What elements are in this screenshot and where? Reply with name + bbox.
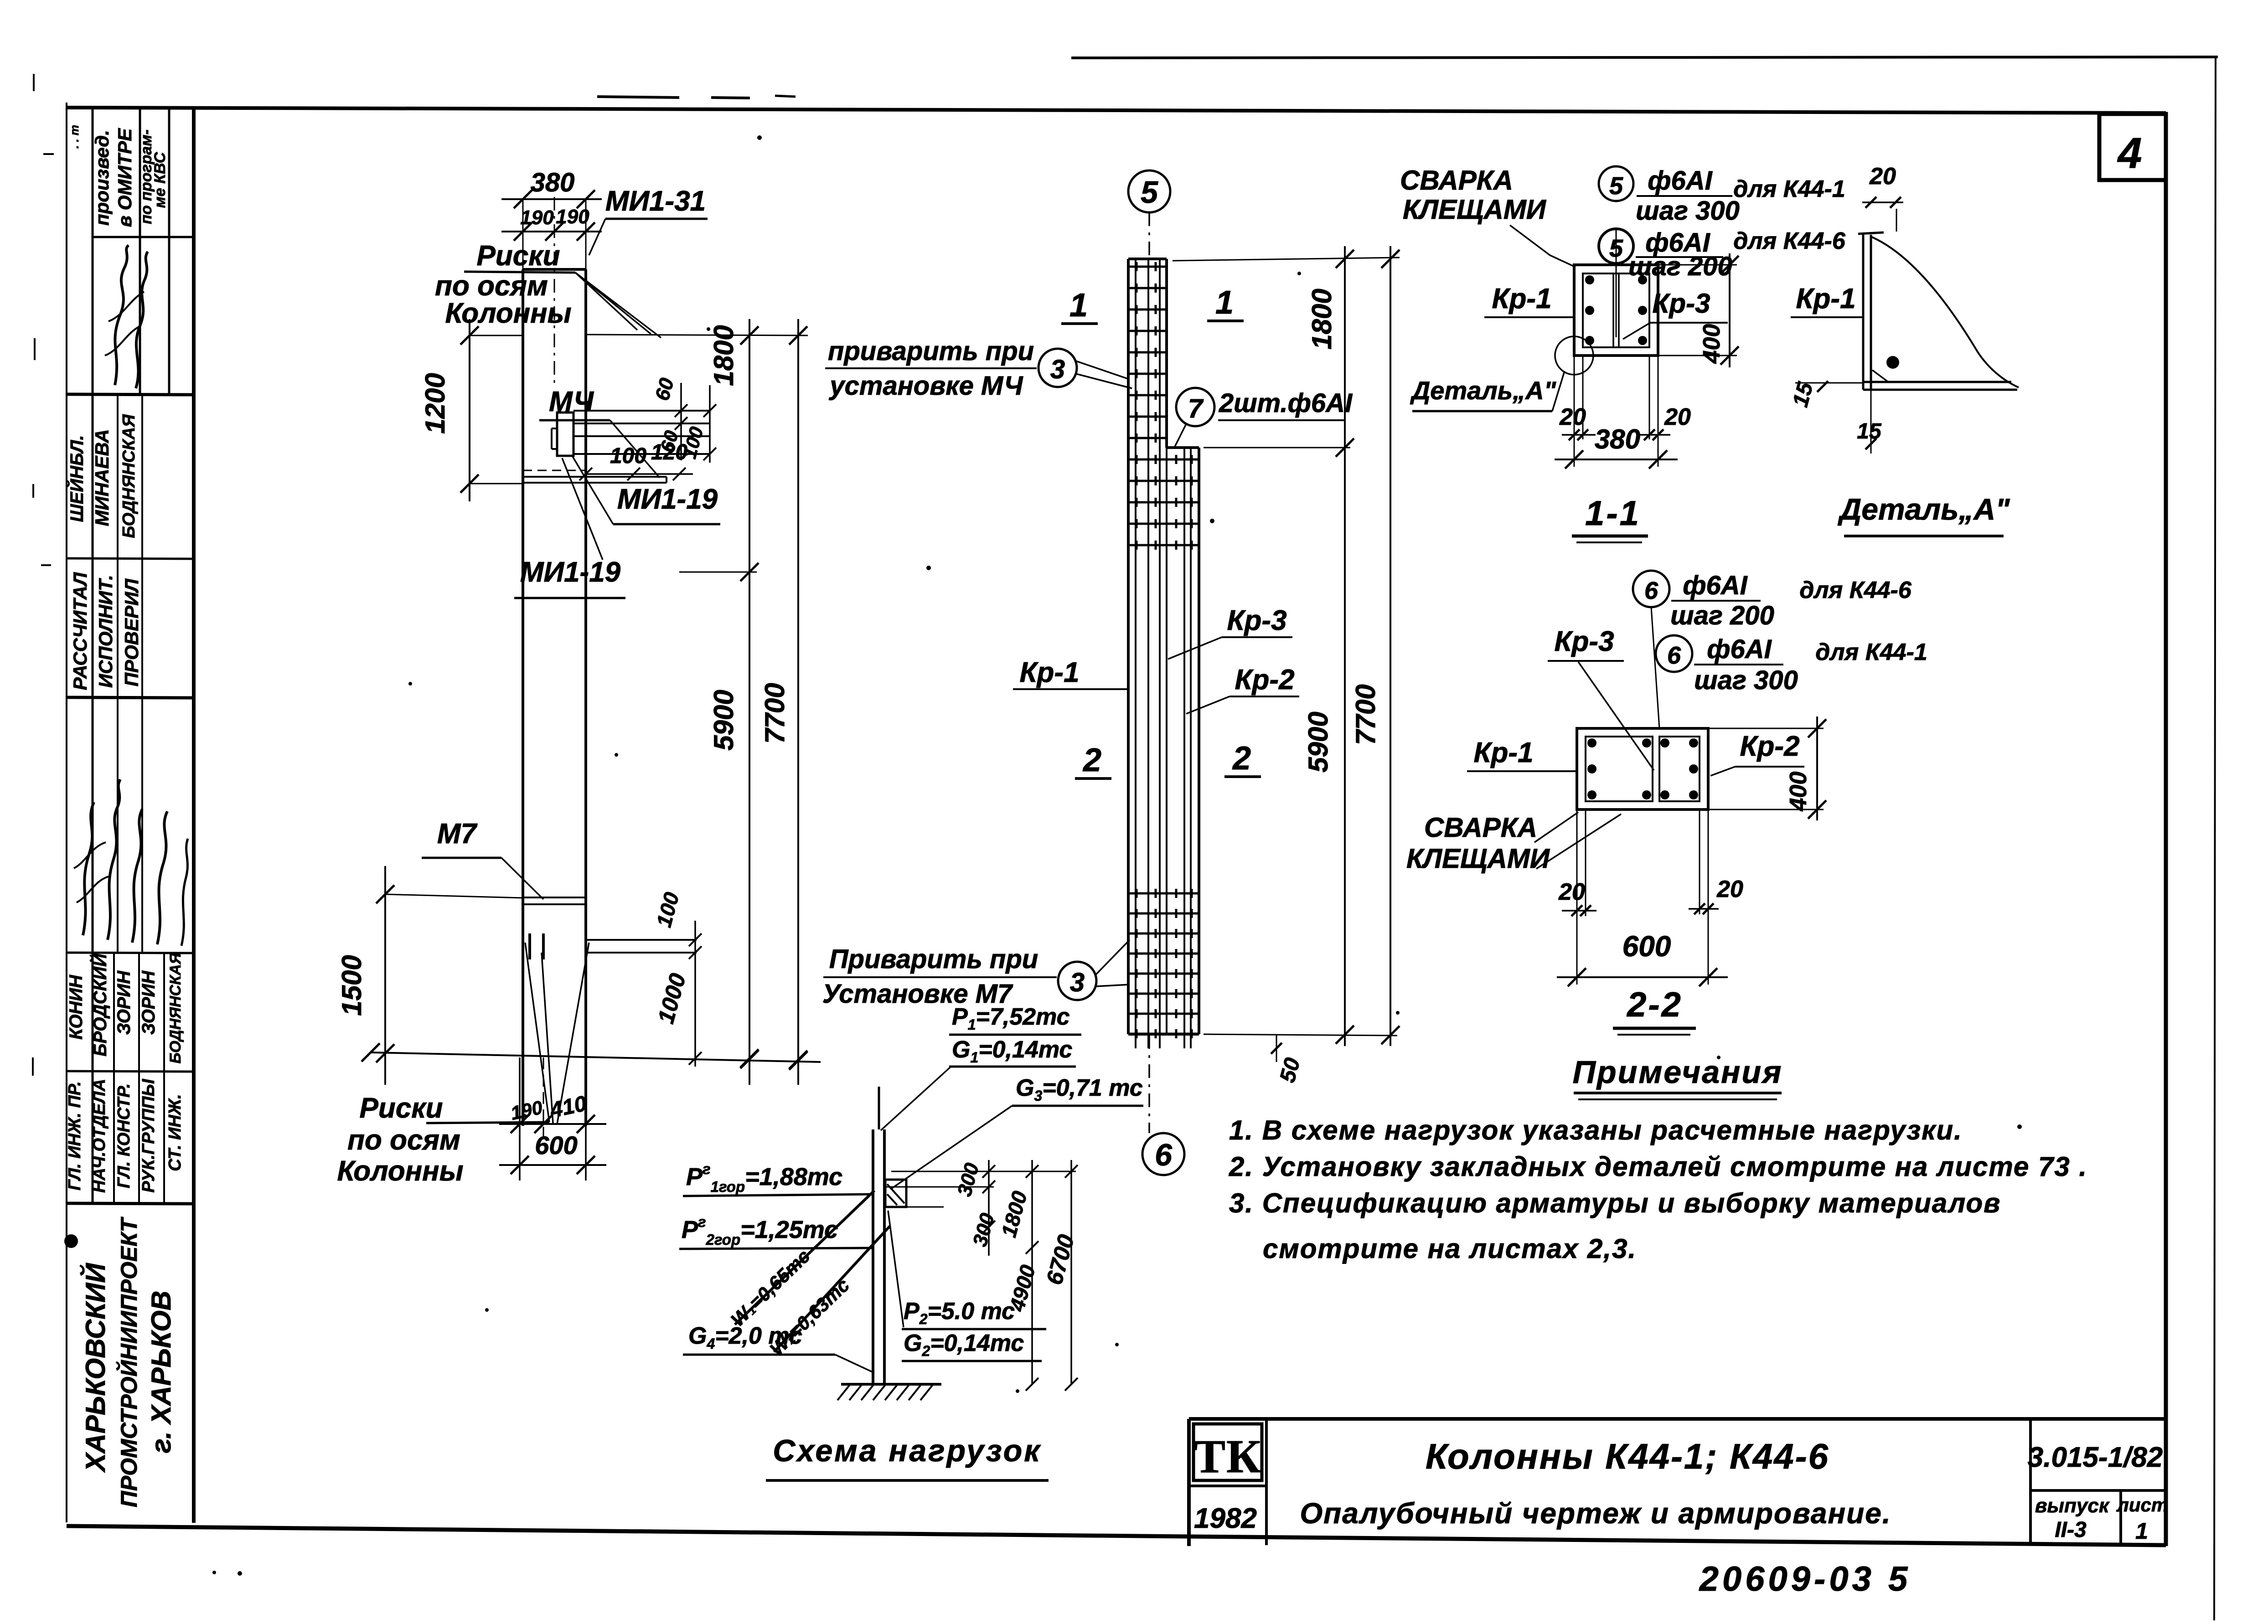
svg-text:для К44-1: для К44-1 <box>1733 176 1845 202</box>
svg-text:6: 6 <box>1155 1138 1173 1172</box>
svg-text:6: 6 <box>1667 642 1681 669</box>
svg-text:2: 2 <box>1232 740 1251 777</box>
svg-text:1800: 1800 <box>1307 289 1337 349</box>
svg-text:ЗОРИН: ЗОРИН <box>139 970 159 1035</box>
svg-text:по осям: по осям <box>347 1124 460 1156</box>
svg-text:400: 400 <box>1699 324 1725 364</box>
svg-text:ф6АI: ф6АI <box>1683 571 1748 600</box>
svg-text:ф6АI: ф6АI <box>1707 634 1772 664</box>
svg-text:600: 600 <box>1622 930 1671 963</box>
svg-text:20: 20 <box>1869 163 1896 190</box>
svg-text:ГЛ. КОНСТР.: ГЛ. КОНСТР. <box>114 1083 134 1188</box>
svg-text:шаг 300: шаг 300 <box>1694 665 1798 695</box>
svg-text:Колонны К44-1; К44-6: Колонны К44-1; К44-6 <box>1426 1436 1829 1476</box>
svg-text:380: 380 <box>531 168 575 197</box>
svg-text:Кр-1: Кр-1 <box>1492 283 1551 314</box>
svg-text:Риски: Риски <box>359 1093 443 1124</box>
svg-text:ПРОВЕРИЛ: ПРОВЕРИЛ <box>121 578 142 686</box>
svg-text:3: 3 <box>1050 355 1065 384</box>
svg-text:Кр-3: Кр-3 <box>1653 288 1710 319</box>
svg-text:Схема нагрузок: Схема нагрузок <box>773 1433 1041 1468</box>
svg-text:20: 20 <box>1664 404 1691 430</box>
svg-text:БРОДСКИЙ: БРОДСКИЙ <box>89 953 110 1057</box>
svg-text:1: 1 <box>1069 287 1088 324</box>
svg-text:15: 15 <box>1857 419 1882 443</box>
svg-text:1500: 1500 <box>336 955 367 1016</box>
svg-text:Колонны: Колонны <box>337 1155 463 1187</box>
svg-text:5900: 5900 <box>708 690 739 750</box>
svg-text:1200: 1200 <box>420 373 450 433</box>
svg-text:3: 3 <box>1070 968 1085 997</box>
svg-text:1800: 1800 <box>708 325 739 386</box>
svg-text:Кр-1: Кр-1 <box>1019 657 1079 688</box>
svg-text:2: 2 <box>1082 742 1101 778</box>
svg-text:КЛЕЩАМИ: КЛЕЩАМИ <box>1403 194 1547 225</box>
svg-text:G4=2,0 тс: G4=2,0 тс <box>688 1323 802 1352</box>
svg-text:5900: 5900 <box>1303 711 1333 772</box>
svg-text:ШЕЙНБЛ.: ШЕЙНБЛ. <box>66 435 87 522</box>
svg-text:РУК.ГРУППЫ: РУК.ГРУППЫ <box>139 1078 158 1192</box>
svg-text:190: 190 <box>520 206 554 229</box>
svg-text:20: 20 <box>1558 879 1585 905</box>
svg-text:20609-03 5: 20609-03 5 <box>1699 1560 1912 1598</box>
svg-text:шаг 200: шаг 200 <box>1670 601 1774 630</box>
svg-text:1: 1 <box>1215 284 1234 321</box>
svg-text:БОДНЯНСКАЯ: БОДНЯНСКАЯ <box>119 414 139 538</box>
svg-text:выпуск: выпуск <box>2035 1495 2110 1517</box>
svg-text:6: 6 <box>1644 577 1658 604</box>
svg-text:7700: 7700 <box>759 683 790 743</box>
svg-text:лист: лист <box>2116 1494 2169 1516</box>
svg-text:Деталь„А": Деталь„А" <box>1838 492 2010 526</box>
svg-text:ТК: ТК <box>1194 1430 1262 1483</box>
svg-text:1982: 1982 <box>1194 1503 1257 1534</box>
svg-text:3. Спецификацию арматуры и выб: 3. Спецификацию арматуры и выборку матер… <box>1229 1188 2001 1218</box>
svg-text:НАЧ.ОТДЕЛА: НАЧ.ОТДЕЛА <box>90 1079 109 1193</box>
svg-text:СВАРКА: СВАРКА <box>1424 812 1537 843</box>
svg-text:смотрите на листах 2,3.: смотрите на листах 2,3. <box>1263 1233 1637 1264</box>
svg-text:КЛЕЩАМИ: КЛЕЩАМИ <box>1406 843 1550 874</box>
svg-text:7700: 7700 <box>1350 684 1381 745</box>
svg-text:МИ1-19: МИ1-19 <box>617 484 718 515</box>
svg-text:5: 5 <box>1609 172 1623 200</box>
svg-text:600: 600 <box>535 1131 577 1160</box>
svg-text:Приварить при: Приварить при <box>829 944 1038 974</box>
svg-text:Колонны: Колонны <box>445 298 571 329</box>
svg-text:1-1: 1-1 <box>1585 494 1641 533</box>
svg-text:ХАРЬКОВСКИЙ: ХАРЬКОВСКИЙ <box>80 1263 111 1473</box>
svg-text:СВАРКА: СВАРКА <box>1400 165 1513 196</box>
svg-text:5: 5 <box>1141 175 1158 210</box>
svg-text:Опалубочный чертеж и армирован: Опалубочный чертеж и армирование. <box>1300 1497 1891 1530</box>
svg-text:г. ХАРЬКОВ: г. ХАРЬКОВ <box>146 1291 176 1454</box>
svg-text:в ОМИТРЕ: в ОМИТРЕ <box>114 128 135 227</box>
svg-text:Кр-3: Кр-3 <box>1554 626 1614 657</box>
svg-text:ГЛ. ИНЖ. ПР.: ГЛ. ИНЖ. ПР. <box>65 1081 84 1191</box>
svg-text:3.015-1/82: 3.015-1/82 <box>2028 1442 2163 1473</box>
svg-text:Кр-2: Кр-2 <box>1740 731 1799 762</box>
svg-text:БОДНЯНСКАЯ: БОДНЯНСКАЯ <box>167 952 184 1063</box>
svg-text:100: 100 <box>610 444 646 468</box>
svg-text:1: 1 <box>2135 1518 2148 1544</box>
svg-text:шаг 300: шаг 300 <box>1636 196 1740 226</box>
svg-text:Кр-1: Кр-1 <box>1796 283 1855 314</box>
svg-text:ф6АI: ф6АI <box>1648 166 1713 196</box>
svg-text:по осям: по осям <box>435 270 548 302</box>
svg-text:шаг 200: шаг 200 <box>1628 252 1732 281</box>
svg-text:Примечания: Примечания <box>1573 1054 1783 1090</box>
svg-text:. . т: . . т <box>67 125 81 149</box>
svg-text:произвед.: произвед. <box>91 130 113 226</box>
svg-text:МИ1-19: МИ1-19 <box>520 557 621 588</box>
svg-text:2. Установку закладных деталей: 2. Установку закладных деталей смотрите … <box>1229 1151 2087 1182</box>
svg-text:МИ1-31: МИ1-31 <box>605 186 706 217</box>
svg-text:7: 7 <box>1188 394 1204 423</box>
svg-text:1. В схеме нагрузок указаны ра: 1. В схеме нагрузок указаны расчетные на… <box>1229 1115 1963 1145</box>
svg-text:2-2: 2-2 <box>1626 985 1683 1024</box>
svg-text:380: 380 <box>1595 424 1640 454</box>
svg-text:Кр-2: Кр-2 <box>1235 664 1294 696</box>
svg-text:Кр-1: Кр-1 <box>1473 737 1533 768</box>
svg-text:РАССЧИТАЛ: РАССЧИТАЛ <box>69 572 91 691</box>
svg-text:ме КВС: ме КВС <box>151 152 169 208</box>
svg-text:КОНИН: КОНИН <box>66 974 86 1040</box>
svg-text:Риски: Риски <box>476 240 560 272</box>
svg-text:400: 400 <box>1785 772 1812 812</box>
svg-text:М7: М7 <box>437 818 478 850</box>
svg-text:Деталь„А": Деталь„А" <box>1410 376 1557 405</box>
svg-text:ЗОРИН: ЗОРИН <box>114 970 134 1035</box>
svg-text:для К44-6: для К44-6 <box>1733 228 1846 254</box>
svg-text:Кр-3: Кр-3 <box>1227 605 1286 636</box>
svg-text:МИНАЕВА: МИНАЕВА <box>91 429 113 526</box>
svg-text:5: 5 <box>1609 235 1623 262</box>
svg-text:20: 20 <box>1559 404 1586 430</box>
svg-text:20: 20 <box>1716 876 1743 902</box>
svg-text:G1=0,14тс: G1=0,14тс <box>952 1036 1072 1066</box>
svg-text:приварить при: приварить при <box>828 336 1034 366</box>
svg-text:ПРОМСТРОЙНИИПРОЕКТ: ПРОМСТРОЙНИИПРОЕКТ <box>116 1216 142 1507</box>
svg-text:120: 120 <box>651 440 687 464</box>
svg-text:ИСПОЛНИТ.: ИСПОЛНИТ. <box>95 575 116 688</box>
svg-text:II-3: II-3 <box>2055 1518 2087 1542</box>
svg-text:СТ. ИНЖ.: СТ. ИНЖ. <box>165 1094 185 1171</box>
svg-text:для К44-6: для К44-6 <box>1799 577 1912 603</box>
svg-text:4: 4 <box>2117 129 2142 177</box>
svg-text:G2=0,14тс: G2=0,14тс <box>904 1330 1024 1359</box>
svg-text:для К44-1: для К44-1 <box>1815 639 1927 665</box>
svg-text:2шт.ф6АI: 2шт.ф6АI <box>1219 388 1353 418</box>
svg-text:установке МЧ: установке МЧ <box>828 371 1023 401</box>
